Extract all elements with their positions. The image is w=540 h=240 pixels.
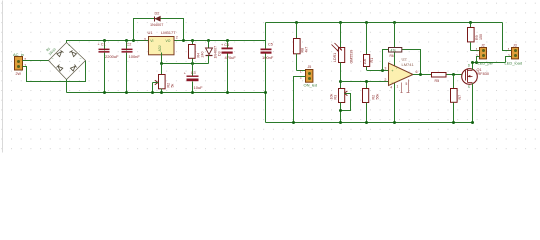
node gnd Q1 source	[471, 121, 474, 124]
wire U1 ADJ lead	[161, 53, 163, 64]
svg-text:470uF: 470uF	[225, 55, 237, 60]
node drain net	[471, 61, 474, 64]
svg-text:5k: 5k	[171, 84, 175, 88]
node D2 right	[182, 39, 185, 42]
node ADJ	[160, 62, 163, 65]
diode bridge bottom-left	[57, 65, 63, 72]
node gnd R2b	[365, 121, 368, 124]
diode bridge bottom-right	[70, 65, 76, 72]
node gnd C4	[226, 91, 229, 94]
svg-text:D3: D3	[218, 51, 222, 56]
resistor R8 for ON led	[294, 23, 309, 71]
svg-text:1: 1	[476, 47, 478, 51]
node gnd C3	[191, 91, 194, 94]
wire R1 to opamp pin3	[367, 70, 389, 72]
ground rail drop	[265, 93, 267, 123]
svg-text:VI: VI	[150, 39, 153, 43]
svg-text:LM741: LM741	[402, 62, 415, 67]
node gnd R3	[339, 121, 342, 124]
svg-text:ADJ: ADJ	[158, 45, 162, 51]
node gnd R7	[452, 121, 455, 124]
node D3 top	[207, 39, 210, 42]
wire bridge minus to ground rail	[66, 80, 68, 93]
node gnd C1	[103, 91, 106, 94]
connector X1 AC input	[13, 52, 26, 76]
node gnd opamp V-	[393, 121, 396, 124]
node gnd J5	[292, 121, 295, 124]
svg-text:10uF: 10uF	[194, 85, 204, 90]
bridge pin marks	[52, 43, 82, 78]
svg-text:3: 3	[144, 38, 146, 42]
wire opamp V-	[394, 83, 396, 123]
frame edge line	[2, 1, 4, 153]
wire opamp output	[413, 74, 432, 76]
wire J2 pin2 to drain net	[477, 57, 480, 63]
diode D2 1N4007	[150, 12, 163, 28]
svg-text:2200uF: 2200uF	[105, 54, 119, 59]
ground rail right	[266, 122, 473, 124]
svg-text:C5: C5	[268, 42, 273, 46]
svg-text:ON_led: ON_led	[304, 82, 318, 87]
resistor R5 gate series	[432, 73, 447, 84]
svg-text:LED_load: LED_load	[505, 61, 523, 66]
photoresistor LDR1 GM5539	[332, 23, 354, 89]
wire X1 pin2 to bridge left	[23, 60, 49, 62]
svg-text:1N4007: 1N4007	[150, 23, 163, 27]
svg-text:6: 6	[416, 70, 418, 74]
wire X1 pin1 to bridge right	[23, 61, 86, 82]
trimpot R2	[153, 64, 175, 93]
resistor R7 pulldown	[451, 75, 463, 123]
wire Q1 drain	[472, 63, 474, 70]
svg-text:150: 150	[479, 34, 483, 40]
svg-text:R7: R7	[458, 95, 462, 100]
capacitor C3 10uF	[184, 64, 203, 93]
wire +V top rail	[266, 22, 503, 24]
diode bridge top-left	[57, 51, 64, 57]
node C1 top	[103, 39, 106, 42]
node C4 top	[226, 39, 229, 42]
diode bridge top-right	[70, 51, 77, 57]
node R8 top	[295, 21, 298, 24]
node C2 top	[125, 39, 128, 42]
svg-text:2: 2	[176, 35, 178, 39]
svg-text:1: 1	[508, 47, 510, 51]
op-amp U2 LM741	[384, 56, 417, 92]
svg-text:IRF830: IRF830	[477, 72, 489, 76]
svg-text:C2: C2	[127, 42, 132, 46]
node R4 top	[191, 39, 194, 42]
resistor R1 reference	[363, 23, 374, 71]
svg-text:5: 5	[406, 82, 408, 86]
svg-text:+: +	[68, 43, 70, 47]
svg-text:J2: J2	[481, 44, 485, 48]
svg-text:3: 3	[384, 66, 386, 70]
svg-text:GM5539: GM5539	[350, 50, 354, 64]
svg-text:4: 4	[390, 86, 392, 90]
svg-text:S: S	[468, 85, 470, 89]
node R9 top	[469, 21, 472, 24]
wire ADJ node horizontal	[162, 63, 209, 65]
bridge rectifier B1	[49, 43, 86, 80]
svg-text:2: 2	[384, 78, 386, 82]
capacitor C1 2200uF	[98, 41, 120, 93]
wire +V to J3 pin1	[503, 23, 512, 51]
wire Q1 source to ground	[472, 84, 474, 123]
wire U1 VO rail	[175, 40, 266, 42]
node divider to pin2	[339, 80, 342, 83]
svg-text:LM317T: LM317T	[161, 30, 176, 35]
node output feedback	[419, 73, 422, 76]
wire top rail bridge plus to U1 VI	[67, 41, 149, 43]
resistor R2b divider	[363, 80, 380, 123]
wire R9 to J2 pin1	[471, 50, 480, 52]
svg-text:R1: R1	[370, 58, 374, 63]
node opamp V+	[393, 21, 396, 24]
node gnd C5	[264, 91, 267, 94]
svg-text:100nF: 100nF	[129, 54, 141, 59]
wire R5 to gate	[447, 74, 463, 76]
svg-text:J3: J3	[513, 44, 517, 48]
svg-text:U2: U2	[402, 56, 408, 61]
node R4 bottom / C3 top	[191, 62, 194, 65]
svg-text:47k: 47k	[391, 48, 397, 52]
node R1 top	[365, 21, 368, 24]
capacitor C5 100nF	[261, 23, 274, 93]
connector J3	[508, 44, 519, 59]
wire J5 pin2 to ground	[294, 77, 306, 123]
svg-text:10k: 10k	[363, 59, 367, 65]
connector J2	[476, 44, 487, 59]
wire D2 bypass loop	[134, 19, 184, 41]
node gnd C2	[125, 91, 128, 94]
svg-text:~: ~	[52, 57, 54, 61]
node LDR top	[339, 21, 342, 24]
svg-text:D2: D2	[155, 12, 160, 16]
regulator U1 LM317T	[144, 30, 178, 55]
feedback resistor R6	[383, 48, 421, 75]
svg-text:~: ~	[80, 57, 82, 61]
diode D3 1N4007	[206, 41, 222, 64]
svg-text:AC_in: AC_in	[13, 52, 24, 57]
svg-text:+ C1: + C1	[98, 43, 106, 47]
svg-text:VO: VO	[166, 39, 171, 43]
wire LED load net	[473, 62, 506, 64]
svg-text:56k: 56k	[375, 94, 379, 100]
node feedback pin3	[381, 69, 384, 72]
svg-text:-: -	[68, 75, 69, 79]
svg-text:R5: R5	[435, 79, 440, 83]
wire opamp V+	[394, 23, 396, 66]
svg-text:4k7: 4k7	[305, 47, 309, 53]
svg-text:LED_pw: LED_pw	[478, 60, 493, 65]
wire R8 to J5 pin1	[297, 70, 306, 72]
trimpot R3	[330, 89, 351, 123]
capacitor C2 100nF	[122, 41, 141, 93]
node J2 pin2	[475, 61, 478, 64]
svg-text:1: 1	[300, 69, 302, 73]
svg-text:U1: U1	[148, 30, 154, 35]
svg-text:1: 1	[397, 85, 399, 89]
svg-text:100nF: 100nF	[262, 55, 274, 60]
transistor Q1 IRF830	[462, 64, 489, 90]
capacitor C4 470uF	[221, 41, 236, 93]
wire J3 pin2 to LED_load	[506, 57, 512, 63]
svg-text:R6: R6	[390, 54, 394, 58]
svg-text:LDR1: LDR1	[333, 53, 337, 62]
ground rail left	[67, 92, 266, 94]
resistor R9 series J2	[468, 23, 484, 51]
node D2 left	[132, 39, 135, 42]
svg-text:2W: 2W	[16, 72, 22, 76]
svg-text:+ C4: + C4	[221, 43, 229, 47]
node gnd R2 wiper	[151, 91, 154, 94]
resistor R4 240	[189, 41, 205, 64]
node gate R7	[452, 73, 455, 76]
svg-text:240: 240	[201, 52, 205, 58]
svg-text:R3: R3	[334, 95, 338, 100]
svg-text:C3: C3	[191, 71, 196, 75]
svg-text:J5: J5	[308, 65, 312, 69]
connector J5 ON_led	[300, 65, 317, 87]
wire divider to opamp pin2	[341, 81, 389, 83]
node gnd R2	[160, 91, 163, 94]
